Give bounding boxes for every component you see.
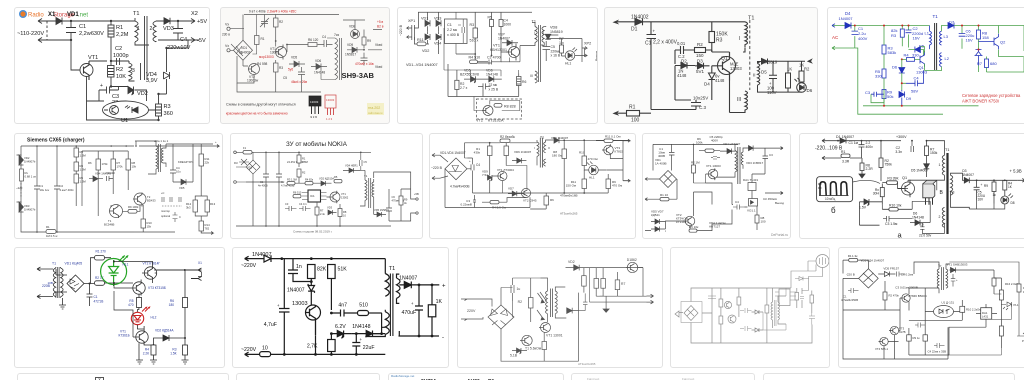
resistor R3 583k lower <box>882 45 886 54</box>
capacitor C2 <box>276 152 282 226</box>
svg-text:VD3: VD3 <box>434 17 441 21</box>
svg-text:+C: +C <box>161 191 165 195</box>
svg-text:10K: 10K <box>116 74 126 80</box>
diode VD3 <box>436 12 441 31</box>
svg-text:КБН13001: КБН13001 <box>490 48 507 52</box>
svg-text:4.жн7 400v: 4.жн7 400v <box>60 188 75 192</box>
resistor R6 <box>544 196 549 205</box>
svg-text:KREGP 5Р1: KREGP 5Р1 <box>178 160 194 164</box>
svg-text:R2: R2 <box>518 300 522 304</box>
svg-text:С5: С5 <box>364 160 368 164</box>
resistor R9 horizontal <box>128 210 137 214</box>
resistor R5 30H <box>880 188 884 197</box>
svg-text:C1: C1 <box>645 41 652 47</box>
svg-text:10: 10 <box>343 214 346 218</box>
diode VD1 <box>425 12 430 31</box>
wire -5V rail <box>158 38 199 41</box>
caps bottom right <box>809 313 815 325</box>
svg-text:58V: 58V <box>911 89 918 94</box>
svg-text:D5: D5 <box>919 44 925 49</box>
svg-text:1.8М: 1.8М <box>302 160 308 164</box>
diode VD4 <box>89 176 103 182</box>
svg-text:D6: D6 <box>807 88 813 93</box>
svg-text:VD2 КД514А: VD2 КД514А <box>155 329 174 333</box>
resistor R2 1k right <box>799 71 804 82</box>
svg-text:ЗУ от мобилы NOKIA: ЗУ от мобилы NOKIA <box>286 141 348 148</box>
transistor VT3 <box>890 326 898 334</box>
diode top <box>795 277 809 281</box>
svg-text:С4: С4 <box>735 200 739 204</box>
diode VD3 <box>17 202 24 212</box>
svg-text:С1 1м: С1 1м <box>849 141 859 145</box>
svg-text:BZX55C6V8: BZX55C6V8 <box>460 73 479 77</box>
wire bridge top to rail <box>242 15 244 67</box>
resistor 82K <box>308 265 316 279</box>
diode VD1 <box>17 155 24 165</box>
svg-text:АТ3шп6х265: АТ3шп6х265 <box>578 362 596 366</box>
resistor R6 horizontal <box>308 43 317 47</box>
svg-text:100k: 100k <box>696 141 703 145</box>
svg-text:VD1-VD4 1N4007: VD1-VD4 1N4007 <box>440 151 466 155</box>
package TO-92 drawing <box>309 96 321 106</box>
svg-text:16V: 16V <box>978 198 985 202</box>
diode row <box>752 310 764 314</box>
capacitor C3 <box>107 176 114 181</box>
svg-text:VD4: VD4 <box>434 42 441 46</box>
bridge rectifier VD1 <box>660 171 677 188</box>
resistor R10 <box>582 156 587 166</box>
svg-text:С3: С3 <box>285 202 289 206</box>
optocoupler VO1.1 <box>749 199 758 207</box>
capacitor C2 <box>675 46 695 54</box>
svg-text:R7: R7 <box>320 209 324 213</box>
wire opto right to R3 <box>149 109 159 111</box>
svg-text:2,2M: 2,2M <box>116 32 129 38</box>
svg-text:C4: C4 <box>914 76 920 81</box>
svg-text:R3: R3 <box>891 33 897 38</box>
svg-text:Выход: Выход <box>595 51 597 61</box>
capacitor C1 <box>66 21 76 40</box>
svg-text:510 x: 510 x <box>470 39 479 43</box>
svg-text:R10 2.2кОм: R10 2.2кОм <box>966 308 981 312</box>
svg-text:T1: T1 <box>748 16 754 22</box>
svg-text:VD5 FR157: VD5 FR157 <box>883 267 899 271</box>
wire right rail <box>607 141 624 181</box>
bottom rail <box>473 192 609 194</box>
svg-text:U1: U1 <box>121 118 128 123</box>
resistor R2 <box>274 18 279 27</box>
svg-text:470мкФх16В: 470мкФх16В <box>560 194 578 198</box>
svg-text:T1: T1 <box>933 14 939 19</box>
svg-text:VD3: VD3 <box>327 206 333 210</box>
row2 tile1: Siemens CX65 charger <box>14 133 223 239</box>
svg-text:С3 1.5м: С3 1.5м <box>885 222 898 226</box>
svg-text:II: II <box>548 146 550 150</box>
svg-text:2: 2 <box>150 26 153 32</box>
svg-text:D6: D6 <box>892 65 898 70</box>
wire top rail <box>643 21 746 23</box>
diode VD6 <box>311 64 327 70</box>
resistor R7 <box>315 207 319 215</box>
svg-text:Vx: Vx <box>225 44 229 48</box>
capacitor C1 variable <box>260 15 269 28</box>
capacitor C3 <box>285 206 297 211</box>
resistor R18 bottom right <box>999 326 1003 336</box>
svg-text:C1: C1 <box>94 295 98 299</box>
svg-text:С1: С1 <box>260 180 264 184</box>
row2 tile3: bridge charger schematic <box>429 133 636 239</box>
row1 tile4: hand drawn MJE13003 schematic <box>604 7 818 124</box>
input plug <box>675 311 683 317</box>
LED D8 <box>1001 196 1009 204</box>
capacitor C1 <box>87 284 93 307</box>
svg-text:II: II <box>753 73 756 78</box>
svg-text:I: I <box>534 146 535 150</box>
svg-text:VD5: VD5 <box>179 186 185 190</box>
resistor R5 <box>594 279 599 289</box>
svg-text:R8: R8 <box>343 210 347 214</box>
svg-text:Q1: Q1 <box>902 176 907 180</box>
svg-text:R2: R2 <box>116 67 123 73</box>
svg-text:I: I <box>739 36 740 42</box>
resistor R1 <box>297 155 301 163</box>
resistor R7 150k <box>925 146 929 156</box>
svg-text:180: 180 <box>169 303 175 307</box>
capacitor C1 <box>669 144 675 170</box>
svg-text:+: + <box>100 83 103 89</box>
svg-text:400V: 400V <box>711 139 718 143</box>
wire mid rail from L2 <box>921 47 942 71</box>
svg-text:~220 В: ~220 В <box>399 24 403 36</box>
svg-text:2.7 x: 2.7 x <box>460 86 468 90</box>
image placeholder mark <box>95 377 104 380</box>
svg-text:T1: T1 <box>389 266 396 272</box>
resistor right <box>810 295 814 303</box>
wire sub rail <box>82 151 128 206</box>
row1 tile5: K750i colour schematic <box>827 7 1024 124</box>
svg-text:n33: n33 <box>110 171 115 175</box>
LED HL1 green <box>101 255 129 286</box>
resistor R8 158 <box>977 30 981 39</box>
junction dot <box>70 20 72 22</box>
bottom wires <box>653 179 748 231</box>
svg-text:+300V: +300V <box>896 135 907 139</box>
transistor VT1 <box>330 192 340 202</box>
svg-text:D8: D8 <box>1011 201 1015 205</box>
svg-text:+: + <box>981 183 983 187</box>
svg-text:HL2: HL2 <box>151 316 157 320</box>
svg-text:Схемы в схемавты друтой могут: Схемы в схемавты друтой могут отличаться <box>226 103 296 107</box>
transistor VT2 KT3102 <box>685 216 695 226</box>
svg-text:Т1: Т1 <box>945 148 949 152</box>
svg-text:3: 3 <box>132 68 135 74</box>
svg-text:22uF: 22uF <box>363 345 375 351</box>
capacitor C2 right <box>583 293 588 310</box>
svg-text:HL1: HL1 <box>565 62 571 66</box>
svg-text:R10 10к: R10 10к <box>889 204 902 208</box>
svg-text:2,2w630V: 2,2w630V <box>79 31 104 37</box>
svg-text:-220 В: -220 В <box>846 273 855 277</box>
input terminal lower <box>234 181 237 184</box>
svg-text:C2: C2 <box>115 46 122 52</box>
capacitor C1 <box>854 26 856 49</box>
svg-text:1N4007: 1N4007 <box>839 16 854 21</box>
svg-text:1N4007b: 1N4007b <box>24 160 36 164</box>
resistor R3 <box>274 63 279 72</box>
wire bottom rail <box>863 105 979 107</box>
svg-text:+: + <box>442 284 446 290</box>
svg-text:10x25V: 10x25V <box>693 96 708 101</box>
resistor R4 <box>582 276 587 286</box>
svg-text:x 16 В: x 16 В <box>551 54 561 58</box>
ground symbol <box>859 174 865 178</box>
output box bottom wire <box>758 85 802 92</box>
diode VD4 <box>720 149 736 154</box>
svg-text:9 в7 x 400в: 9 в7 x 400в <box>249 10 266 14</box>
resistor R8 2.2R <box>860 163 864 171</box>
transistor VT1 <box>80 64 93 77</box>
wire top rail <box>271 259 385 274</box>
svg-text:1N4148: 1N4148 <box>352 324 370 330</box>
svg-text:U1 Д-131: U1 Д-131 <box>941 301 954 305</box>
svg-text:R1: R1 <box>261 37 265 41</box>
svg-text:С6 0.2мк: С6 0.2мк <box>901 273 914 277</box>
svg-text:SH9-3AB: SH9-3AB <box>342 71 375 80</box>
resistor R2 2.7x <box>455 80 459 89</box>
resistor R8 100 <box>755 215 759 223</box>
svg-text:сайтслам.ги: сайтслам.ги <box>368 111 383 115</box>
svg-text:VD2: VD2 <box>568 260 575 264</box>
svg-text:-5V: -5V <box>197 38 206 44</box>
svg-text:4n7: 4n7 <box>338 303 347 309</box>
input terminal Vx lower <box>227 49 230 52</box>
svg-text:R13: R13 <box>210 202 216 206</box>
waveform sketch box <box>817 177 853 202</box>
svg-text:VD1--VD4 1N4007: VD1--VD4 1N4007 <box>406 63 438 67</box>
svg-text:3.3n: 3.3n <box>895 150 902 154</box>
svg-text:С6: С6 <box>392 195 396 199</box>
component label AU30 <box>467 379 480 380</box>
input left <box>645 178 660 181</box>
svg-text:+: + <box>277 303 280 308</box>
resistor R4 <box>74 162 79 171</box>
svg-text:470uF: 470uF <box>402 310 417 316</box>
diode VD2 <box>425 31 430 44</box>
svg-text:R4 598: R4 598 <box>257 62 268 66</box>
thyristor VS1 <box>522 335 532 345</box>
svg-text:1.5V: 1.5V <box>859 206 867 210</box>
components right of IC <box>795 293 799 301</box>
svg-text:170k: 170k <box>102 162 109 166</box>
svg-text:R1: R1 <box>116 25 123 31</box>
zener VD3 <box>512 348 527 354</box>
svg-text:~110-220V: ~110-220V <box>17 31 44 37</box>
svg-text:monrop: monrop <box>161 209 170 213</box>
resistor R2 <box>297 169 301 177</box>
capacitor C4 <box>733 205 745 210</box>
row2 tile4: DePortal dense schematic <box>642 133 791 239</box>
svg-text:~220: ~220 <box>16 186 23 190</box>
row4 partial tiles <box>17 373 229 380</box>
svg-text:1N4007: 1N4007 <box>498 37 510 41</box>
wire VT1 base loop <box>114 291 133 337</box>
output capacitor C6 <box>386 192 392 221</box>
svg-text:+5В: +5В <box>414 192 419 196</box>
svg-text:VD4 UF4007: VD4 UF4007 <box>723 142 741 146</box>
svg-text:+: + <box>411 301 414 306</box>
input arrows ~220V <box>432 153 440 180</box>
bridge rectifier VD1 <box>246 160 260 174</box>
svg-text:~220V: ~220V <box>241 347 257 353</box>
capacitor C4 100/16V <box>769 61 777 92</box>
transistor V2 <box>724 301 731 308</box>
svg-text:C1: C1 <box>79 24 86 30</box>
wire top rail <box>236 151 371 153</box>
component label R1 <box>488 379 494 380</box>
wire lower rail <box>236 181 391 226</box>
svg-text:Э К Б: Э К Б <box>310 115 317 119</box>
transformer T1 secondary III <box>745 91 748 113</box>
fuse F1 <box>243 151 252 155</box>
wire right top <box>962 270 995 278</box>
resistor R11b <box>582 179 587 189</box>
svg-text:Тр: Тр <box>938 264 942 268</box>
svg-text:КД521: КД521 <box>651 213 660 217</box>
capacitor C3 <box>473 195 476 208</box>
diode VD1 <box>45 18 71 25</box>
svg-text:VT2: VT2 <box>476 119 483 123</box>
svg-text:VD1-КД4 1N4007: VD1-КД4 1N4007 <box>861 259 885 263</box>
svg-text:HL1: HL1 <box>589 176 595 180</box>
resistor R4 <box>1003 181 1007 191</box>
resistor R vertical 1k <box>786 73 791 88</box>
svg-text:R5 10к: R5 10к <box>689 225 699 229</box>
wire D4 bottom rail <box>675 66 712 100</box>
svg-text:13003: 13003 <box>730 66 742 71</box>
zener VD5 <box>289 61 305 67</box>
transformer small <box>775 300 777 326</box>
wire HL2 bottom to VT1 <box>138 325 145 329</box>
svg-text:R5: R5 <box>334 175 338 179</box>
svg-text:22k: 22k <box>205 161 210 165</box>
svg-text:F1: F1 <box>243 146 247 150</box>
ground mid-right <box>603 304 609 312</box>
svg-text:2,2 x 400V: 2,2 x 400V <box>653 40 678 46</box>
resistor R7 <box>615 280 620 290</box>
row1 tile1: RadioStorage charger schematic <box>14 7 210 124</box>
svg-text:VD5: VD5 <box>291 56 297 60</box>
svg-text:400V: 400V <box>858 36 868 41</box>
svg-text:1M: 1M <box>696 161 701 165</box>
resistor R9 <box>606 179 611 189</box>
svg-text:R1: R1 <box>46 225 50 229</box>
svg-text:XP2: XP2 <box>584 42 591 46</box>
svg-text:VT1 13001: VT1 13001 <box>546 334 563 338</box>
capacitor C1 <box>263 152 269 226</box>
svg-text:красным цветом на что была зам: красным цветом на что была замечено <box>226 112 288 116</box>
svg-text:R1 10: R1 10 <box>660 193 668 197</box>
resistor R3 150K <box>709 32 715 43</box>
transistor VT2 KT3102A <box>483 106 493 116</box>
capacitor C2 <box>54 146 60 232</box>
svg-text:782: 782 <box>205 227 210 231</box>
svg-text:VD6 1N4007: VD6 1N4007 <box>514 150 532 154</box>
input wires <box>822 139 836 160</box>
svg-text:+: + <box>956 278 958 282</box>
svg-text:RU: RU <box>234 161 238 165</box>
svg-text:10: 10 <box>262 346 268 352</box>
svg-text:VO1.1: VO1.1 <box>747 209 756 213</box>
svg-text:III: III <box>530 74 533 78</box>
svg-text:1N4007: 1N4007 <box>287 288 305 294</box>
svg-text:Vked: Vked <box>375 43 382 47</box>
svg-text:50k: 50k <box>887 94 893 99</box>
output arrows <box>647 294 654 304</box>
svg-text:Сетевое зарядное устройства: Сетевое зарядное устройства <box>962 93 1021 98</box>
bridge rectifier <box>445 158 467 180</box>
input terminal Vx upper <box>227 27 230 30</box>
right bottom wire <box>969 201 1005 209</box>
svg-text:VT3 КТ315Б: VT3 КТ315Б <box>148 286 166 290</box>
output capacitor C3 <box>763 148 769 166</box>
svg-text:R4: R4 <box>904 53 910 58</box>
LED HL1 <box>565 51 575 61</box>
svg-text:13001: 13001 <box>270 51 279 55</box>
svg-text:400v: 400v <box>866 145 874 149</box>
bridge rectifier <box>859 269 879 288</box>
svg-text:170k: 170k <box>117 165 124 169</box>
svg-text:АОТ127: АОТ127 <box>709 225 720 229</box>
transformer winding 3 <box>129 61 132 81</box>
svg-text:1N4007: 1N4007 <box>399 276 417 282</box>
svg-text:4148: 4148 <box>677 73 687 78</box>
svg-text:VD4 НЕR1: VD4 НЕR1 <box>345 164 358 168</box>
resistor R5 <box>74 174 79 183</box>
svg-text:BD433: BD433 <box>147 199 156 203</box>
wire bridge output <box>84 283 95 285</box>
svg-text:DePortal.ru: DePortal.ru <box>771 233 788 237</box>
diode D4 <box>845 23 851 29</box>
capacitor C3 <box>883 216 896 222</box>
row2 tile2: NOKIA charger <box>230 133 423 239</box>
resistor R8 <box>126 159 131 170</box>
svg-text:150 Ом: 150 Ом <box>566 184 576 188</box>
optocoupler U1 <box>103 101 149 119</box>
resistor R5 10k <box>689 229 697 232</box>
svg-text:1А 400В: 1А 400В <box>655 162 667 166</box>
bridge rectifier VD1 1N4002 <box>233 40 252 60</box>
wire opto top from VD2 <box>139 90 147 101</box>
output minus rail <box>399 331 440 336</box>
zener diode VD2 <box>128 87 139 96</box>
svg-text:150k: 150k <box>930 151 938 155</box>
svg-text:HL1: HL1 <box>123 263 129 267</box>
svg-text:R1: R1 <box>841 150 845 154</box>
svg-text:T1: T1 <box>133 11 140 17</box>
junction dots <box>110 145 112 147</box>
svg-text:VD5 1N5819: VD5 1N5819 <box>374 208 389 212</box>
svg-text:C5: C5 <box>283 76 287 80</box>
svg-text:470: 470 <box>128 303 134 307</box>
resistor R5 vertical mid <box>504 146 509 156</box>
TO-220 package <box>923 184 935 198</box>
svg-text:1N4148: 1N4148 <box>314 71 325 75</box>
svg-text:330: 330 <box>912 53 919 58</box>
svg-text:VT2 КТ814Г: VT2 КТ814Г <box>143 262 161 266</box>
LED D6 <box>797 83 807 93</box>
svg-text:1: 1 <box>939 163 941 167</box>
wire +5V rail <box>178 19 195 24</box>
